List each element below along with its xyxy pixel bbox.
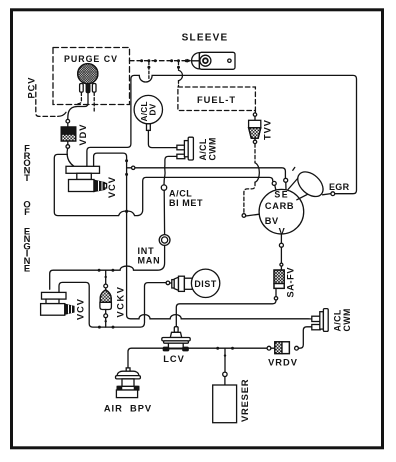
svg-text:VCV: VCV: [76, 298, 86, 320]
wire VCV right stem B down main vertical to A/CL CWM lower: [94, 153, 312, 319]
wire SA-FV to LCV: [176, 300, 276, 327]
crossover arc over two wires: [255, 163, 259, 182]
tank V RESER: [213, 385, 237, 423]
wire PCV junction curve: [58, 112, 66, 116]
connector VRDV right: [295, 346, 299, 350]
wire purge left nipple dashed stub: [78, 93, 81, 104]
connector A/CL BIMET: [161, 185, 166, 190]
svg-text:LCV: LCV: [163, 354, 185, 364]
junction dots near V RESER tap: [216, 347, 219, 350]
crossover arc over top edge: [179, 70, 183, 80]
svg-text:CWM: CWM: [342, 308, 352, 331]
connector VDV top: [66, 119, 70, 123]
svg-text:INT: INT: [138, 246, 155, 256]
wire VCV right stem A to top edge and EGR: [87, 75, 357, 193]
svg-text:VDV: VDV: [78, 124, 88, 146]
label FRONT OF ENGINE: [23, 142, 30, 273]
hose VDV to VCV flange: [67, 148, 74, 166]
label INT MAN: [138, 246, 161, 266]
svg-text:T: T: [24, 172, 30, 183]
junction dots on INT MAN wire: [111, 269, 114, 272]
junction dots on main vertical: [125, 159, 128, 162]
wire A/CL DV to A/CL CWM upper nipple: [148, 130, 177, 147]
wire upper long run to carburetor SE port: [127, 168, 286, 178]
connector TVV bottom: [253, 140, 256, 143]
valve LCV: [162, 327, 190, 351]
valve AIR BPV: [116, 368, 141, 398]
svg-text:VRESER: VRESER: [239, 379, 250, 422]
dashed drop into air cleaner cup: [148, 62, 150, 79]
connector VRDV left: [267, 346, 271, 350]
svg-text:VCV: VCV: [107, 176, 117, 198]
arrow into sleeve: [187, 59, 192, 63]
svg-text:VRDV: VRDV: [268, 358, 298, 368]
svg-text:A/CL: A/CL: [333, 309, 343, 331]
wire VDV junction to lower left loop: [54, 154, 126, 215]
connector EGR port: [331, 192, 335, 196]
svg-text:BI MET: BI MET: [169, 198, 203, 208]
wire PCV dashed: [36, 85, 58, 117]
connector carburetor SE port: [284, 178, 288, 182]
svg-text:SLEEVE: SLEEVE: [182, 33, 229, 44]
stub SE port to carburetor: [285, 182, 287, 190]
svg-text:AIR BPV: AIR BPV: [104, 403, 152, 413]
motor A/CL CWM upper: [177, 137, 194, 160]
wire BIMET to INT MAN: [163, 190, 165, 234]
dashed box FUEL-T: [178, 87, 256, 111]
valve VCV lower: [41, 292, 74, 315]
wire VDV bottom stub: [67, 141, 69, 145]
nipple A/CL DV: [147, 124, 151, 131]
svg-text:PURGE CV: PURGE CV: [64, 54, 118, 64]
wire INT MAN down to left loop: [50, 245, 165, 289]
dashed wire TVV to carburetor BV port: [254, 144, 256, 163]
svg-text:MAN: MAN: [138, 256, 161, 266]
label SE CARB BV V: [265, 190, 295, 237]
svg-text:E: E: [24, 263, 30, 274]
filter SA-FV: [274, 270, 284, 297]
junction dots on lower loop: [98, 326, 101, 329]
connector SA-FV bottom: [274, 297, 277, 300]
wire VRDV to A/CL CWM lower: [298, 327, 311, 348]
valve VCV upper: [66, 166, 107, 191]
connector DIST wire: [166, 281, 170, 285]
connector VDV bottom: [66, 145, 70, 149]
svg-text:FUEL-T: FUEL-T: [197, 95, 236, 105]
svg-text:A/CL: A/CL: [198, 138, 208, 160]
wire purge right nipple dashed stub: [93, 93, 95, 112]
stub BV port to carburetor: [246, 214, 260, 216]
connector carburetor left port: [272, 181, 276, 185]
connector carburetor BV port: [242, 214, 246, 218]
connector TVV top: [253, 113, 256, 116]
wire carburetor V to SA-FV: [280, 234, 282, 243]
dashed box PURGE CV: [53, 48, 130, 105]
distributor DIST: [170, 269, 220, 297]
valve VRDV: [271, 342, 290, 354]
wire A/CL CWM lower nipple to BIMET: [164, 156, 177, 184]
valve PURGE CV canister: [78, 64, 98, 93]
carburetor circle: [259, 189, 304, 234]
svg-text:V: V: [279, 227, 286, 237]
stub EGR to horn: [323, 194, 331, 195]
hose purge center nipple to VDV: [68, 93, 88, 119]
junction dots on sleeve line: [140, 59, 188, 69]
dashed drop to FUEL-T: [178, 62, 180, 87]
wire LCV line to VRDV and AIR BPV: [128, 348, 267, 368]
svg-text:VCKV: VCKV: [116, 286, 126, 318]
valve A/CL DV: [134, 95, 162, 123]
connector on upper long run: [132, 166, 135, 169]
port INT MAN: [159, 235, 170, 246]
wire lower run to carburetor left port: [127, 177, 273, 215]
stub left port to carburetor: [275, 185, 276, 190]
dashed drop FUEL-T to TVV: [254, 111, 256, 113]
svg-text:SA-FV: SA-FV: [286, 267, 296, 298]
svg-text:PCV: PCV: [27, 77, 37, 99]
fitting SLEEVE: [192, 52, 235, 69]
valve VDV: [61, 127, 76, 141]
wire V RESER drop: [224, 348, 226, 372]
connector V RESER: [223, 372, 227, 376]
svg-text:CWM: CWM: [208, 137, 218, 160]
wire VCV lower right stem to DIST loop: [59, 282, 166, 327]
wire VDV top stub: [67, 123, 69, 127]
motor A/CL CWM lower: [312, 309, 328, 332]
check valve VCKV: [100, 270, 112, 327]
horn on carburetor: [288, 167, 328, 201]
svg-text:DIST: DIST: [194, 279, 216, 289]
svg-text:BV: BV: [265, 216, 279, 226]
dashed line purge box to sleeve: [130, 60, 187, 62]
svg-text:CARB: CARB: [265, 201, 294, 211]
svg-text:F: F: [24, 206, 30, 217]
svg-text:SE: SE: [274, 190, 289, 200]
svg-text:DV: DV: [149, 103, 158, 115]
svg-text:TVV: TVV: [263, 119, 273, 140]
label A/CL BI MET: [169, 189, 203, 208]
svg-text:EGR: EGR: [329, 182, 350, 192]
valve TVV: [249, 116, 261, 140]
